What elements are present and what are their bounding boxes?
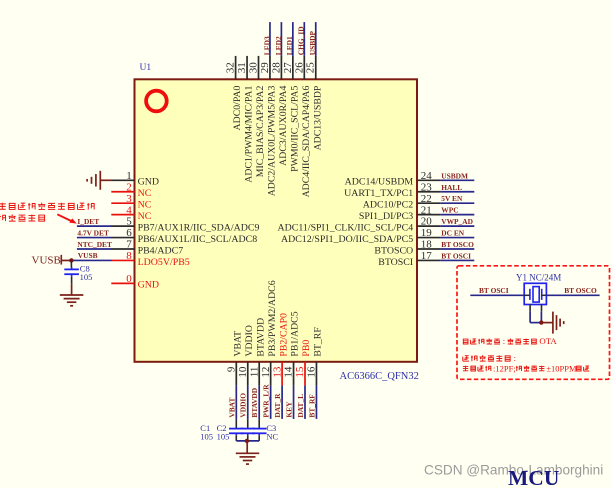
capacitor C2 [240,419,255,441]
net label BT OSCI [441,251,471,260]
wire junction to ground (crystal) [541,322,553,324]
pin 7 (PB4/ADC7) left side [111,239,183,257]
svg-text:5: 5 [126,216,132,228]
svg-text:PB6/AUX1L/IIC_SCL/ADC8: PB6/AUX1L/IIC_SCL/ADC8 [138,234,258,245]
svg-text:VUSB: VUSB [78,251,98,260]
svg-text:DC EN: DC EN [441,229,464,238]
svg-text:ADC4/IIC_SDA/CAP4/PA6: ADC4/IIC_SDA/CAP4/PA6 [301,86,312,198]
svg-text:DAT_R: DAT_R [273,393,282,418]
svg-text:4: 4 [126,204,132,216]
svg-text:ADC0/PA0: ADC0/PA0 [232,85,243,130]
wire C8 to ground [71,284,73,295]
svg-text:NC: NC [138,188,152,199]
wire net USBDP [315,22,317,56]
net label BT OSCI (crystal) [479,286,509,295]
svg-text:BTOSCO: BTOSCO [374,245,413,256]
annotation: crystal requirement heading [463,353,516,363]
svg-text:BTAVDD: BTAVDD [250,388,259,418]
net label DC EN [441,229,464,238]
svg-text:U1: U1 [140,63,152,73]
wire net LED1 [292,22,294,56]
svg-text:32: 32 [225,62,237,73]
net label BTAVDD [250,388,259,418]
wire net VWP_AD [440,225,474,227]
net label PWR_L/R [262,384,271,418]
svg-text:105: 105 [200,432,213,442]
svg-text:PB3/PWM2/ADC6: PB3/PWM2/ADC6 [267,280,278,356]
svg-text:28: 28 [270,62,282,74]
capacitor C3 [252,419,267,441]
svg-text:PB1/ADC5: PB1/ADC5 [290,311,301,356]
junction below crystal [539,320,543,324]
designator U1 [140,63,152,73]
net label HALL [441,183,462,192]
svg-text:26: 26 [293,62,305,74]
crystal Y1 [524,283,546,311]
designator C3 [266,423,276,433]
wire net NTC_DET [77,248,112,250]
svg-text:VWP_AD: VWP_AD [441,217,473,226]
pin 13 (PB2/CAP0) bottom side [271,313,289,386]
svg-text:ADC1/PWM4/MIC/PA1: ADC1/PWM4/MIC/PA1 [244,86,255,183]
svg-text:ADC3/AUX0R/PA4: ADC3/AUX0R/PA4 [278,86,289,166]
net label USBDP [308,30,317,55]
wire net USBDM [440,179,474,181]
wire net HALL [440,191,474,193]
pin 15 (PB0) bottom side [294,340,312,386]
svg-text:GND: GND [138,177,159,188]
pin 1 (GND) left side [111,170,159,188]
port VUSB [32,254,62,266]
pin 12 (PB3/PWM2/ADC6) bottom side [260,280,278,385]
svg-text:1: 1 [126,170,132,182]
net label BT_RF [307,394,316,418]
net label I_DET [77,217,99,226]
pin 9 (VBAT) bottom side [226,331,244,386]
annotation text line 2 [0,214,45,221]
svg-text:ADC14/USBDM: ADC14/USBDM [345,177,414,188]
annotation arrow to I_DET [57,214,77,223]
svg-text:UART1_TX/PC1: UART1_TX/PC1 [344,188,413,199]
net label BT OSCO [441,240,474,249]
svg-text:18: 18 [421,239,433,251]
svg-text:BT OSCI: BT OSCI [479,286,509,295]
svg-text:31: 31 [236,62,248,73]
svg-text:15: 15 [294,366,306,378]
svg-text:9: 9 [226,366,238,372]
capacitor C1 [229,419,244,441]
svg-text:0: 0 [126,273,132,285]
svg-text:25: 25 [305,62,317,74]
svg-text:NC: NC [138,211,152,222]
svg-text:BT OSCI: BT OSCI [441,251,471,260]
net label VDDIO [239,393,248,418]
svg-text:22: 22 [421,193,432,205]
sheet title MCU [508,466,559,488]
svg-text:SPI1_DI/PC3: SPI1_DI/PC3 [359,211,413,222]
svg-text:I_DET: I_DET [77,217,99,226]
svg-text:ADC12/SPI1_DO/IIC_SDA/PC5: ADC12/SPI1_DO/IIC_SDA/PC5 [281,234,413,245]
value 105 (C8) [80,272,93,282]
svg-text:NC: NC [266,432,278,442]
pin 32 (ADC0/PA0) top side [225,56,244,131]
wire net BT OSCO [440,248,474,250]
wire pin1 to ground [101,179,112,181]
wire net BT OSCO (crystal right) [546,294,599,296]
svg-text:HALL: HALL [441,183,462,192]
wire net WPC [440,214,474,216]
svg-text:DAT_L: DAT_L [296,394,305,418]
annotation: load capacitance 12PF / 10PPM note [463,363,589,373]
net label BT OSCO (crystal) [564,286,597,295]
svg-text:BT_RF: BT_RF [307,394,316,418]
svg-text::: : [514,353,516,363]
junction below C2 [245,439,249,443]
pin 18 (BTOSCO) right side [374,239,440,257]
pin 23 (UART1_TX/PC1) right side [344,181,440,199]
pin 30 (MIC_BIAS/CAP3/PA2) top side [248,56,267,177]
wire net DC EN [440,237,474,239]
designator C8 [80,264,90,274]
designator C1 [200,423,210,433]
net label LED2 [274,36,283,55]
value 105 (C2) [217,432,230,442]
net label VUSB [78,251,98,260]
wire port VUSB to junction [61,259,71,261]
svg-text:OTA: OTA [539,336,557,346]
svg-text:17: 17 [421,250,433,262]
wire net 5V EN [440,202,474,204]
wire net BT OSCI (crystal left) [470,294,524,296]
wire junction to ground (C1-C3) [246,441,248,453]
wire net I_DET [77,225,112,227]
svg-text:5V EN: 5V EN [441,194,463,203]
designator C2 [217,423,227,433]
svg-text:MIC_BIAS/CAP3/PA2: MIC_BIAS/CAP3/PA2 [255,86,266,178]
net label NTC_DET [77,240,112,249]
svg-text:MCU: MCU [508,466,559,488]
net label LED3 [262,36,271,55]
net label 4.7V DET [77,229,109,238]
svg-text:ADC11/SPI1_CLK/IIC_SCL/PC4: ADC11/SPI1_CLK/IIC_SCL/PC4 [277,222,413,233]
svg-text:4.7V DET: 4.7V DET [77,229,109,238]
wire net DAT_L [304,386,306,419]
pin 28 (ADC3/AUX0R/PA4) top side [270,56,289,166]
svg-text:BTAVDD: BTAVDD [255,318,266,357]
junction at VUSB node [69,258,73,262]
svg-text:VDDIO: VDDIO [244,325,255,357]
annotation text: headphone overcurrent detect note line 1 [0,203,95,210]
svg-text:21: 21 [421,204,432,216]
wire net CHG_ID [303,22,305,56]
wire net VBAT [235,386,237,420]
net label LED1 [285,36,294,55]
svg-text:8: 8 [126,250,132,262]
svg-text:PB0: PB0 [301,340,312,357]
wire joining C1 C2 C3 bottoms [236,440,259,442]
pin 10 (VDDIO) bottom side [237,325,255,386]
svg-text:BT_RF: BT_RF [313,327,324,357]
pin 21 (SPI1_DI/PC3) right side [359,204,441,222]
svg-text:VDDIO: VDDIO [239,393,248,418]
svg-text:VUSB: VUSB [32,254,61,266]
svg-text:BTOSCI: BTOSCI [378,257,413,268]
IC U1 AC6366C_QFN32 body [135,79,418,362]
annotation dashed box around crystal option [457,266,610,380]
pin 17 (BTOSCI) right side [378,250,440,268]
svg-text:7: 7 [126,239,132,251]
pin 19 (ADC12/SPI1_DO/IIC_SDA/PC5) right side [281,227,440,245]
svg-text::12PF;: :12PF; [493,363,516,373]
pin 14 (PB1/ADC5) bottom side [283,311,301,385]
pin 5 (PB7/AUX1R/IIC_SDA/ADC9) left side [111,216,259,234]
ground symbol below C1-C3 [236,453,260,464]
pin 26 (ADC4/IIC_SDA/CAP4/PA6) top side [293,56,312,197]
ground symbol at pin 1 [87,171,100,190]
value 105 (C1) [200,432,213,442]
svg-text:ADC13/USBDP: ADC13/USBDP [312,85,323,150]
svg-text:LDO5V/PB5: LDO5V/PB5 [138,257,190,268]
svg-text:CHG_ID: CHG_ID [297,26,306,55]
svg-text:VBAT: VBAT [233,331,244,357]
wire net VDDIO [247,386,249,420]
net label DAT_L [296,394,305,418]
svg-text:Y1 NC/24M: Y1 NC/24M [516,273,561,283]
svg-text:13: 13 [271,366,283,378]
pin 3 (NC) left side [111,193,151,211]
svg-text:USBDP: USBDP [308,30,317,55]
svg-text::: : [503,336,505,346]
svg-text:30: 30 [248,62,260,74]
pin 25 (ADC13/USBDP) top side [305,56,324,150]
svg-text:10: 10 [237,366,249,378]
watermark CSDN [424,463,603,478]
wire net KEY [293,386,295,419]
wire net LED2 [280,22,282,56]
svg-text:BT OSCO: BT OSCO [441,240,474,249]
svg-text:2: 2 [126,181,132,193]
svg-text:PWR_L/R: PWR_L/R [262,384,271,418]
svg-text:29: 29 [259,62,271,74]
svg-text:24: 24 [421,170,433,182]
net label KEY [285,401,294,418]
pin 22 (ADC10/PC2) right side [363,193,441,211]
svg-text:LED3: LED3 [262,36,271,55]
pin-1 marker circle on U1 [146,91,167,112]
ground symbol right of crystal [553,312,564,334]
wire net BT OSCI [440,259,474,261]
pin 29 (ADC2/AUX0L/PWM5/PA3) top side [259,56,278,196]
svg-text:NTC_DET: NTC_DET [77,240,112,249]
svg-text:AC6366C_QFN32: AC6366C_QFN32 [340,371,419,382]
svg-text:11: 11 [248,367,260,378]
svg-text:27: 27 [282,62,294,74]
svg-text:ADC10/PC2: ADC10/PC2 [363,200,414,211]
value AC6366C_QFN32 [340,371,419,382]
value NC (C3) [266,432,278,442]
svg-text:12: 12 [260,367,272,378]
pin 2 (NC) left side [111,181,151,199]
pin 27 (PWM0/IIC_SCL/PA5) top side [282,56,301,172]
pin 11 (BTAVDD) bottom side [248,318,266,386]
net label VWP_AD [441,217,473,226]
wire net BT_RF [315,386,317,419]
net label USBDM [441,171,468,180]
svg-text:BT OSCO: BT OSCO [564,286,597,295]
svg-text:GND: GND [138,280,159,291]
net label DAT_R [273,393,282,418]
svg-text:WPC: WPC [441,206,458,215]
svg-text:LED2: LED2 [274,36,283,55]
svg-text:USBDM: USBDM [441,171,468,180]
pin 8 (LDO5V/PB5) left side [111,250,189,268]
svg-text:14: 14 [283,366,295,378]
wire net PWR_L/R [270,386,272,419]
svg-text:105: 105 [217,432,230,442]
svg-text:NC: NC [138,200,152,211]
svg-text:105: 105 [80,272,93,282]
svg-text:6: 6 [126,227,132,239]
pin 0 (GND) left side [111,273,159,291]
pin 16 (BT_RF) bottom side [306,327,324,386]
annotation: no-crystal option note (red, in dashed box) [463,336,557,346]
svg-text:PB7/AUX1R/IIC_SDA/ADC9: PB7/AUX1R/IIC_SDA/ADC9 [138,222,260,233]
pin 20 (ADC11/SPI1_CLK/IIC_SCL/PC4) right side [277,216,440,234]
svg-text:LED1: LED1 [285,36,294,55]
wire net DAT_R [281,386,283,419]
svg-text:±10PPM: ±10PPM [546,363,577,373]
pin 6 (PB6/AUX1L/IIC_SCL/ADC8) left side [111,227,257,245]
net label WPC [441,206,458,215]
capacitor C8 [64,260,79,283]
svg-text:PB2/CAP0: PB2/CAP0 [278,313,289,357]
svg-text:PB4/ADC7: PB4/ADC7 [138,245,184,256]
svg-text:KEY: KEY [285,401,294,418]
pin 4 (NC) left side [111,204,151,222]
pin 31 (ADC1/PWM4/MIC/PA1) top side [236,56,255,183]
ground symbol below C8 [60,295,84,306]
svg-text:23: 23 [421,181,433,193]
pin 24 (ADC14/USBDM) right side [345,170,441,188]
svg-text:PWM0/IIC_SCL/PA5: PWM0/IIC_SCL/PA5 [289,86,300,172]
svg-text:16: 16 [306,366,318,378]
designator/value Y1 NC/24M [516,273,561,283]
wire net 4.7V DET [77,237,112,239]
svg-text:VBAT: VBAT [227,398,236,418]
net label CHG_ID [297,26,306,55]
wire net LED3 [269,22,271,56]
wire net VUSB to pin 8 [71,259,111,261]
svg-text:20: 20 [421,216,433,228]
net label VBAT [227,398,236,418]
svg-text:19: 19 [421,227,433,239]
wire net BTAVDD [258,386,260,420]
svg-text:3: 3 [126,193,132,205]
net label 5V EN [441,194,463,203]
svg-text:ADC2/AUX0L/PWM5/PA3: ADC2/AUX0L/PWM5/PA3 [267,86,278,197]
wire crystal pins to junction [530,311,541,322]
